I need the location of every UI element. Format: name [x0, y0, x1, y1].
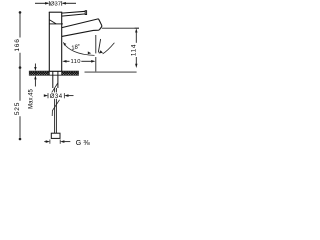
dimension 114 line upper with up arrow [135, 28, 137, 32]
svg-text:⅜: ⅜ [83, 138, 90, 147]
countertop hatch left block [29, 72, 49, 75]
faucet body right edge [61, 12, 63, 71]
dimension 166 top dot [19, 11, 22, 14]
dimension 110 line left segment with arrow at body [62, 60, 66, 63]
supply hose crossing diagonal [51, 83, 58, 94]
dimension 114 outlet extension line [102, 27, 139, 29]
countertop slab bottom line [29, 74, 79, 76]
svg-text:Max.45: Max.45 [28, 89, 34, 109]
dimension Ø34 right tick [63, 93, 65, 98]
dimension Ø37 line left segment with arrow [35, 2, 48, 4]
lever rod top edge [62, 11, 86, 13]
svg-text:G: G [76, 140, 81, 147]
dimension G3/8 right tick [59, 140, 61, 144]
dimension Ø37 line right segment with arrow [63, 2, 76, 4]
faucet body left edge [48, 12, 50, 71]
dimension 525 bottom dot [19, 138, 22, 141]
countertop slab top line [29, 70, 79, 72]
svg-text:110: 110 [70, 59, 80, 65]
dimension 525 line upper [19, 69, 21, 101]
faucet cap top edge [49, 11, 62, 13]
dimension 114 line lower with down arrow [135, 57, 137, 65]
dimension G3/8 line left with arrow [44, 141, 46, 143]
faucet base stubs through countertop [49, 71, 61, 75]
spout outlet extension line vertical [95, 35, 97, 53]
svg-text:525: 525 [14, 102, 21, 115]
dimension G3/8 line right with arrow [60, 140, 64, 143]
dimension G3/8 left tick [49, 140, 51, 144]
label Ø34 [49, 92, 64, 98]
lever rod bottom edge [62, 14, 86, 16]
countertop hatch right block [62, 72, 79, 75]
dimension Ø37 right tick [61, 1, 63, 6]
dimension 166 line lower [19, 53, 21, 67]
countertop surface line extending right [85, 71, 137, 73]
dimension 114 top tick [135, 27, 139, 29]
angle annotation arc with arrowhead [103, 43, 115, 54]
svg-text:114: 114 [131, 44, 138, 56]
threaded shank right edge [57, 71, 59, 88]
supply hose right line [55, 88, 57, 133]
dimension Ø34 line right with arrow [64, 94, 68, 97]
spout outline [62, 19, 102, 36]
dimension 166 bottom dot [19, 66, 22, 69]
dimension Ø34 left tick [47, 93, 49, 98]
faucet cap chamfer [49, 20, 56, 24]
dimension 525 line lower [19, 116, 21, 138]
angle annotation steep line [98, 39, 100, 53]
dimension Ø34 line left with arrow [43, 95, 46, 97]
svg-text:Ø37: Ø37 [50, 2, 61, 8]
hose end fitting [51, 133, 60, 138]
dimension 110 line right segment with arrow [81, 60, 91, 62]
svg-text:Ø34: Ø34 [50, 94, 63, 100]
lever rod end cap [85, 11, 86, 15]
dimension Ø37 left tick [48, 1, 50, 6]
svg-text:166: 166 [14, 38, 21, 51]
supply hose left line [54, 88, 56, 133]
threaded shank left edge [52, 71, 54, 88]
dimension Max.45 lower line with up arrow [34, 75, 36, 79]
faucet cap joint line [49, 23, 63, 25]
angle 18 arc with arrowheads [63, 42, 94, 55]
dimension Max.45 upper line with down arrow [34, 64, 36, 68]
dimension 166 line upper [19, 13, 21, 37]
